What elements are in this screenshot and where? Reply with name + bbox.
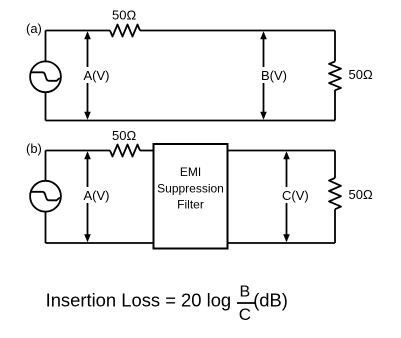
wire from resistor to EMI box circuit b <box>140 150 154 152</box>
node B(V) measurement arrow circuit a <box>260 31 288 120</box>
label (a) <box>26 21 42 36</box>
svg-text:50Ω: 50Ω <box>112 128 136 143</box>
EMI suppression filter box <box>154 144 228 249</box>
wire left upper segment circuit a <box>45 31 47 62</box>
svg-text:(a): (a) <box>26 21 42 36</box>
svg-text:B: B <box>240 284 251 301</box>
wire right lower segment circuit a <box>334 90 336 121</box>
wire from EMI box to right circuit b <box>228 150 336 152</box>
wire top-left segment circuit a <box>46 30 111 32</box>
value label 50ohm series circuit b <box>112 128 136 143</box>
wire bottom-right segment circuit b <box>228 242 336 244</box>
value label 50ohm load circuit b <box>349 187 373 202</box>
node C(V) measurement arrow circuit b <box>281 151 310 242</box>
svg-text:B(V): B(V) <box>261 68 287 83</box>
wire bottom-left segment circuit b <box>46 242 154 244</box>
wire top-right segment circuit a <box>140 30 335 32</box>
AC source circuit b <box>30 181 61 212</box>
svg-text:(b): (b) <box>26 141 42 156</box>
insertion loss formula text <box>46 290 232 311</box>
wire bottom circuit a <box>46 120 336 122</box>
AC source circuit a <box>30 61 61 92</box>
svg-text:50Ω: 50Ω <box>349 187 373 202</box>
svg-text:A(V): A(V) <box>84 68 110 83</box>
svg-text:Filter: Filter <box>177 198 204 212</box>
svg-text:(dB): (dB) <box>253 290 288 311</box>
wire right upper segment circuit a <box>334 31 336 62</box>
wire left lower segment circuit b <box>45 212 47 244</box>
wire left lower segment circuit a <box>45 92 47 121</box>
formula denominator C <box>239 305 251 324</box>
node A(V) measurement arrow circuit a <box>82 31 110 120</box>
svg-text:C(V): C(V) <box>282 188 309 203</box>
value label 50ohm load circuit a <box>349 67 373 82</box>
formula unit (dB) <box>253 290 288 311</box>
svg-text:C: C <box>239 305 251 324</box>
svg-text:50Ω: 50Ω <box>112 8 136 23</box>
formula numerator B <box>240 284 251 301</box>
value label 50ohm series circuit a <box>112 8 136 23</box>
formula fraction bar <box>237 302 255 304</box>
svg-text:Suppression: Suppression <box>157 182 224 196</box>
wire left upper segment circuit b <box>45 151 47 181</box>
svg-text:A(V): A(V) <box>84 188 110 203</box>
svg-text:Insertion Loss = 20 log: Insertion Loss = 20 log <box>46 290 232 311</box>
resistor 50ohm load circuit a <box>329 62 341 91</box>
wire right upper segment circuit b <box>334 151 336 179</box>
svg-text:50Ω: 50Ω <box>349 67 373 82</box>
node A(V) measurement arrow circuit b <box>82 151 110 242</box>
label (b) <box>26 141 42 156</box>
wire top-left segment circuit b <box>46 150 111 152</box>
resistor 50ohm load circuit b <box>329 178 341 209</box>
resistor 50ohm series circuit a <box>110 25 140 37</box>
wire right lower segment circuit b <box>334 209 336 243</box>
resistor 50ohm series circuit b <box>110 145 140 157</box>
svg-text:EMI: EMI <box>180 165 201 179</box>
